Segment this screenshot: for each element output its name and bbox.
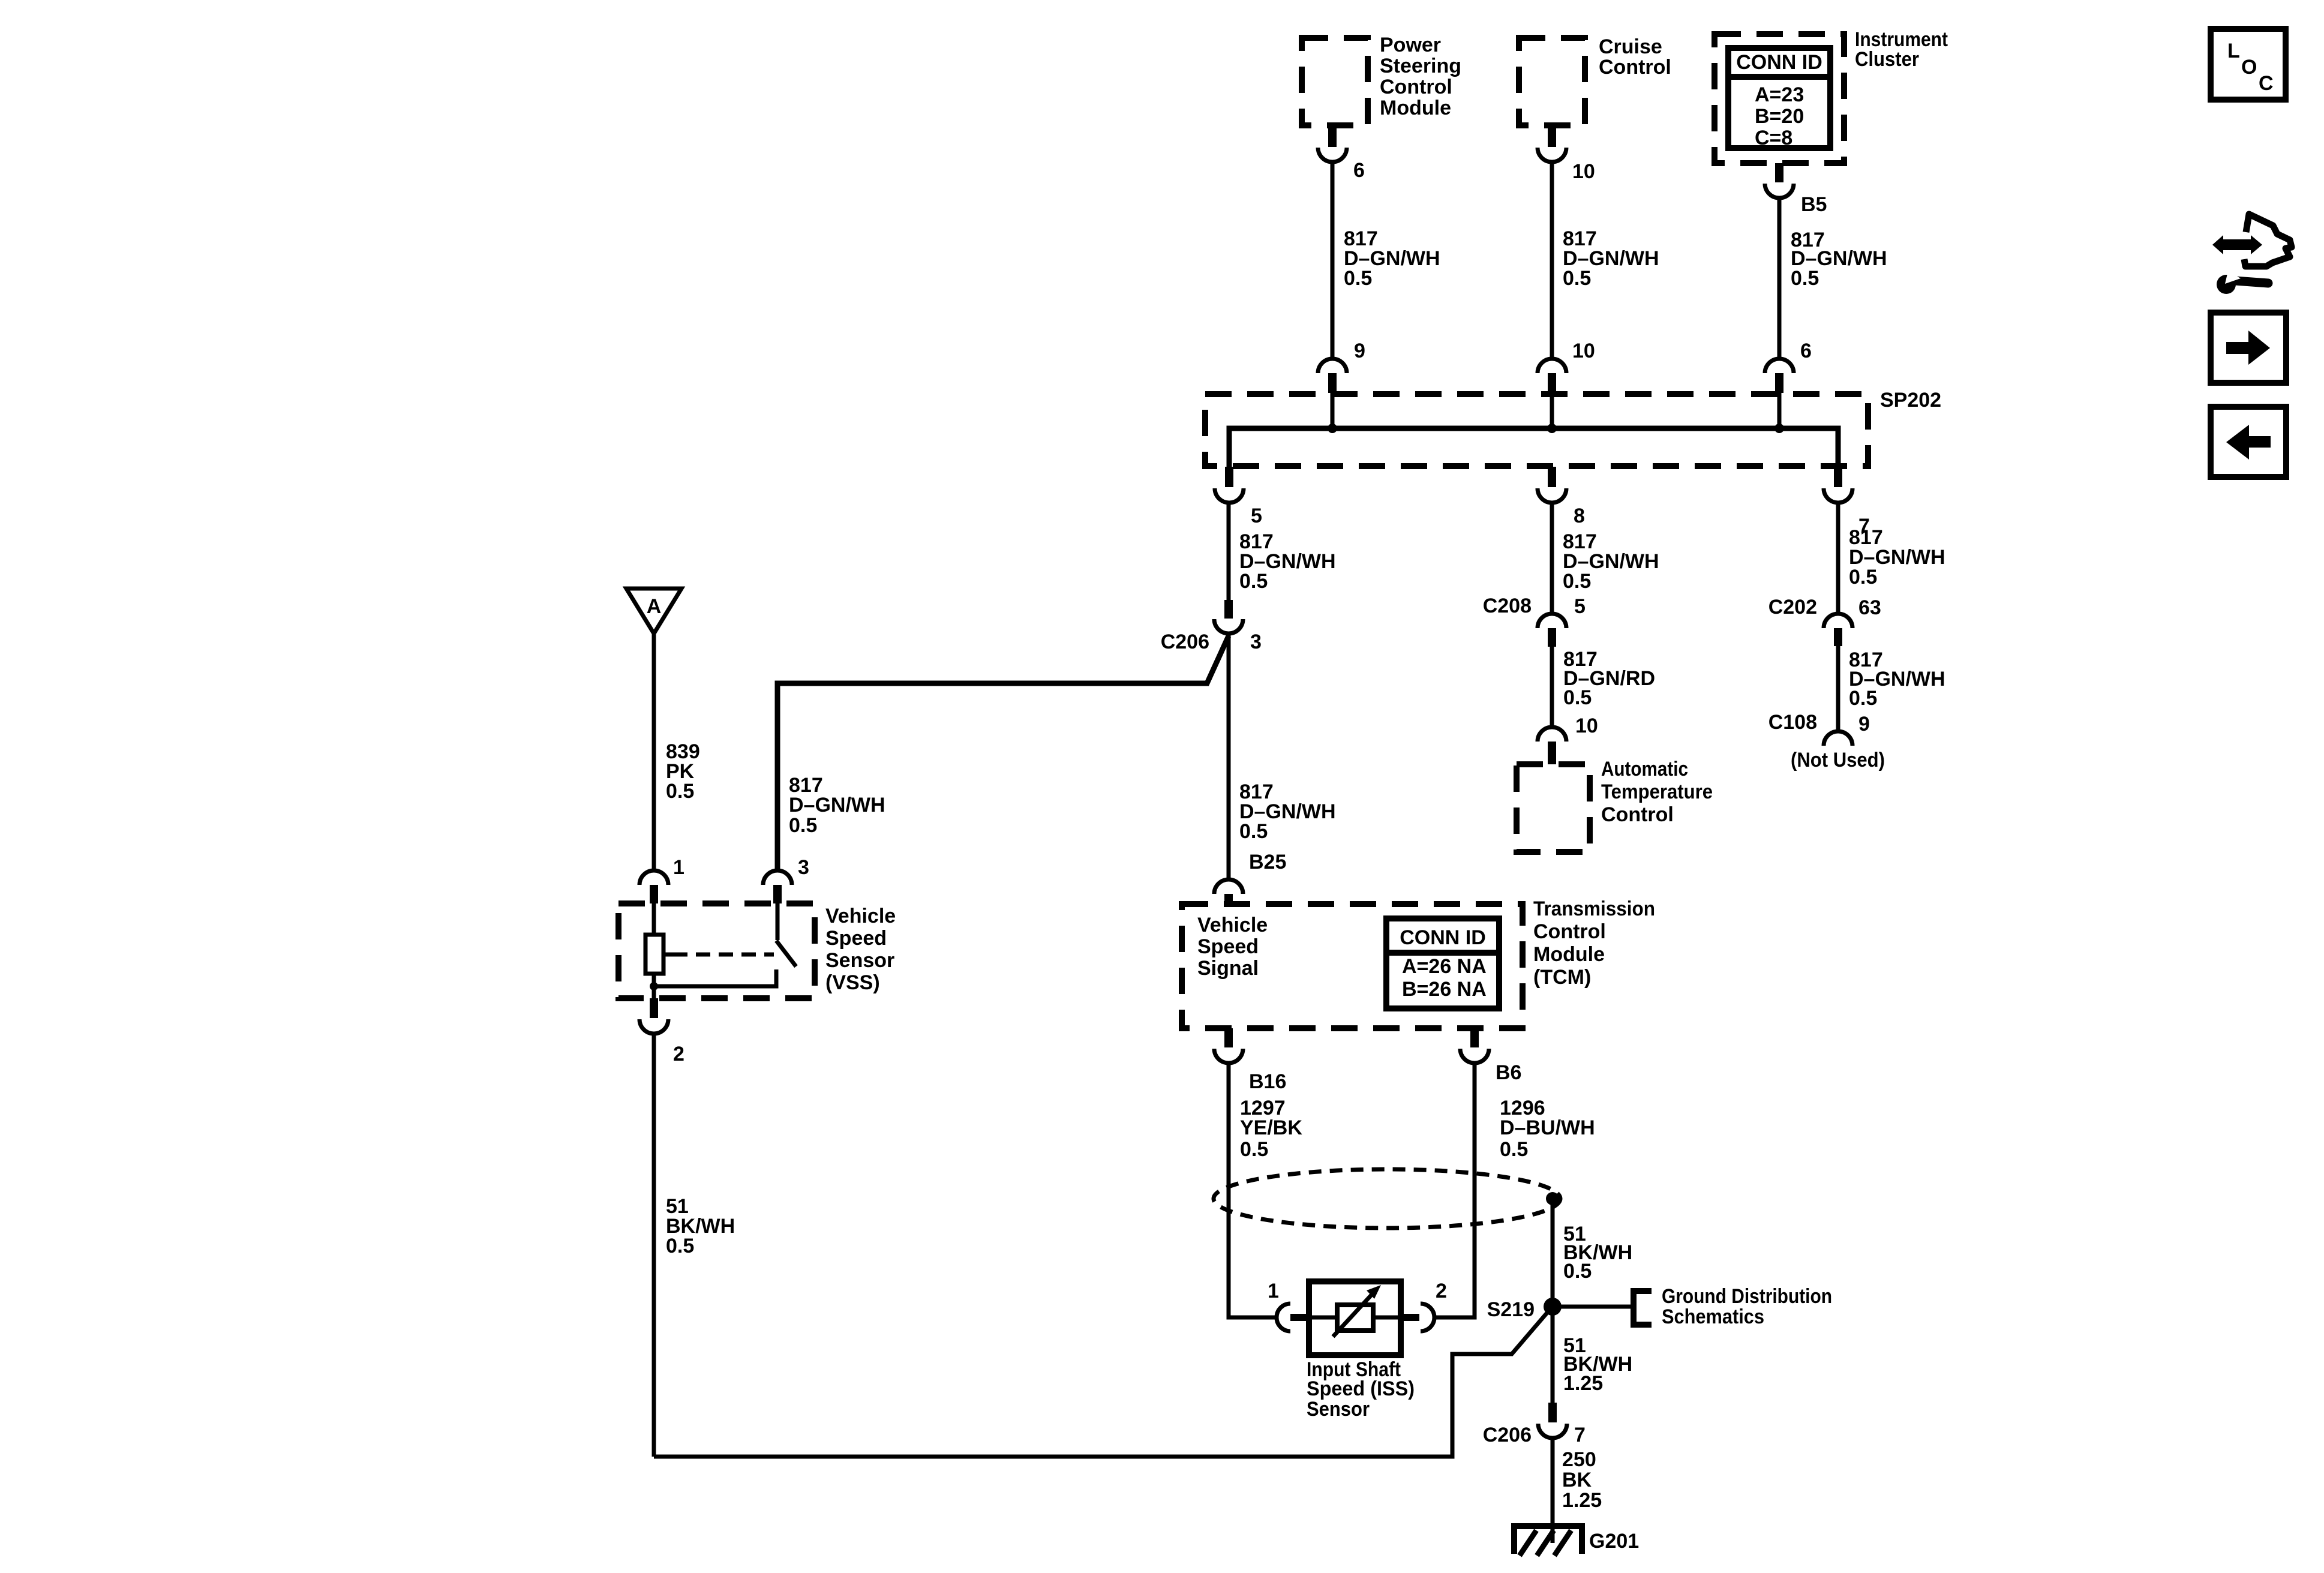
svg-text:A: A xyxy=(647,595,662,618)
svg-text:5: 5 xyxy=(1251,505,1262,527)
svg-text:C108: C108 xyxy=(1768,711,1817,734)
svg-text:0.5: 0.5 xyxy=(1563,686,1592,709)
svg-text:0.5: 0.5 xyxy=(1563,570,1591,593)
icon: forward arrow box xyxy=(2211,313,2286,383)
connector pin B25 at TCM xyxy=(1214,851,1286,905)
svg-text:1: 1 xyxy=(1268,1280,1279,1302)
node junction inside VSS xyxy=(650,969,776,990)
svg-text:Signal: Signal xyxy=(1197,957,1259,980)
connector pin 1 at VSS xyxy=(639,856,684,903)
svg-text:63: 63 xyxy=(1858,596,1881,619)
svg-text:(Not Used): (Not Used) xyxy=(1791,749,1885,772)
svg-text:D–BU/WH: D–BU/WH xyxy=(1500,1116,1595,1139)
svg-text:0.5: 0.5 xyxy=(1791,267,1819,290)
svg-text:(TCM): (TCM) xyxy=(1533,966,1591,989)
svg-text:0.5: 0.5 xyxy=(1563,267,1591,290)
svg-text:3: 3 xyxy=(798,856,809,879)
svg-text:1.25: 1.25 xyxy=(1563,1372,1603,1395)
svg-text:Cluster: Cluster xyxy=(1855,48,1919,71)
svg-text:5: 5 xyxy=(1574,595,1586,618)
module: Automatic Temperature Control xyxy=(1517,758,1713,852)
svg-text:L: L xyxy=(2227,40,2240,62)
in-line connector C206 pin 7 xyxy=(1483,1403,1586,1446)
svg-text:10: 10 xyxy=(1575,715,1598,737)
svg-text:Sensor: Sensor xyxy=(1307,1398,1370,1421)
svg-text:B16: B16 xyxy=(1249,1070,1286,1093)
svg-text:B25: B25 xyxy=(1249,851,1286,873)
connector pin B16 at TCM xyxy=(1214,1028,1286,1093)
icon: back arrow box xyxy=(2211,407,2286,477)
node: case ground junction on ellipse xyxy=(1546,1192,1559,1205)
svg-text:B=20: B=20 xyxy=(1755,105,1804,128)
svg-text:Vehicle: Vehicle xyxy=(1197,914,1268,936)
module: Instrument Cluster xyxy=(1715,28,1948,163)
connector pin 1 at ISS sensor xyxy=(1268,1280,1309,1331)
svg-text:(VSS): (VSS) xyxy=(825,971,880,994)
connector pin 3 at VSS xyxy=(763,856,809,903)
dashed actuation link inside VSS xyxy=(663,953,774,957)
wire 817 D-GN/WH label at VSS pin 3 xyxy=(789,774,885,837)
svg-text:2: 2 xyxy=(1436,1280,1447,1302)
wire 817 D-GN/WH from SP202 pin 7 to C202 xyxy=(1838,503,1945,614)
svg-text:9: 9 xyxy=(1354,340,1365,362)
in-line connector C208 pin 5 xyxy=(1483,595,1586,647)
svg-text:CONN ID: CONN ID xyxy=(1400,926,1486,949)
connector pin B5 at Instrument Cluster xyxy=(1765,163,1827,216)
wire 817 D-GN/WH from Power Steering pin 6 to SP202 pin 9 xyxy=(1332,162,1440,359)
svg-text:10: 10 xyxy=(1572,160,1595,183)
connector pin 2 at VSS xyxy=(639,998,684,1065)
svg-text:0.5: 0.5 xyxy=(789,814,817,837)
svg-text:Module: Module xyxy=(1380,97,1451,119)
svg-text:Module: Module xyxy=(1533,943,1605,966)
ground G201 xyxy=(1514,1526,1639,1556)
legend: LOC box xyxy=(2211,29,2286,100)
svg-text:G201: G201 xyxy=(1589,1530,1639,1553)
node A reference triangle xyxy=(626,589,681,634)
module: Cruise Control xyxy=(1519,35,1671,125)
splice SP202 xyxy=(1205,389,1941,467)
wire 51 BK/WH from VSS pin 2 to S219 xyxy=(654,1034,1551,1457)
module: Power Steering Control Module xyxy=(1302,34,1461,125)
wire 817 D-GN/WH from C202 to C108 xyxy=(1838,646,1945,731)
svg-text:C206: C206 xyxy=(1161,631,1209,653)
svg-text:0.5: 0.5 xyxy=(1500,1138,1528,1161)
wire 817 D-GN/WH from C206 pin 3 to TCM B25 xyxy=(1229,634,1336,879)
wire 51 BK/WH from S219 to C206 pin 7 xyxy=(1563,1334,1632,1395)
svg-text:YE/BK: YE/BK xyxy=(1240,1116,1302,1139)
module: Transmission Control Module (TCM) xyxy=(1182,897,1655,1028)
svg-text:C208: C208 xyxy=(1483,595,1532,617)
icon: diagnostic car with arrow and wrench xyxy=(2212,214,2292,294)
svg-text:C: C xyxy=(2259,72,2274,95)
wire 1296 D-BU/WH from TCM B6 to ISS sensor pin 2 xyxy=(1434,1063,1595,1317)
svg-text:B=26 NA: B=26 NA xyxy=(1402,978,1487,1001)
svg-text:0.5: 0.5 xyxy=(666,1235,694,1257)
svg-text:Control: Control xyxy=(1533,920,1606,943)
svg-text:8: 8 xyxy=(1574,505,1585,527)
in-line connector C108 pin 9 (Not Used) xyxy=(1768,711,1885,772)
svg-text:0.5: 0.5 xyxy=(1344,267,1372,290)
svg-text:10: 10 xyxy=(1572,340,1595,362)
svg-text:Speed: Speed xyxy=(825,927,887,950)
splice S219 xyxy=(1487,1298,1631,1321)
svg-text:Schematics: Schematics xyxy=(1662,1305,1764,1328)
component: Input Shaft Speed (ISS) Sensor xyxy=(1307,1281,1415,1421)
svg-text:O: O xyxy=(2241,56,2257,79)
svg-text:2: 2 xyxy=(673,1043,684,1065)
svg-text:B6: B6 xyxy=(1496,1061,1521,1084)
connector pin 8 below SP202 xyxy=(1538,467,1585,527)
svg-text:Speed: Speed xyxy=(1197,935,1259,958)
svg-text:A=26 NA: A=26 NA xyxy=(1402,955,1487,978)
svg-text:Temperature: Temperature xyxy=(1601,781,1713,803)
wire 817 D-GN/WH from Cruise Control pin 10 to SP202 pin 10 xyxy=(1552,162,1659,359)
svg-text:C202: C202 xyxy=(1768,596,1817,619)
svg-text:250: 250 xyxy=(1562,1448,1596,1471)
resistor inside VSS xyxy=(645,903,663,999)
svg-text:6: 6 xyxy=(1800,340,1812,362)
svg-text:0.5: 0.5 xyxy=(1239,820,1268,843)
svg-text:6: 6 xyxy=(1353,159,1365,182)
transmission case dashed ellipse xyxy=(1214,1169,1560,1228)
svg-text:Power: Power xyxy=(1380,34,1441,56)
svg-text:Steering: Steering xyxy=(1380,55,1461,77)
svg-text:0.5: 0.5 xyxy=(1849,566,1877,589)
switch inside VSS xyxy=(776,903,796,966)
wire 817 D-GN/WH from Instrument Cluster B5 to SP202 pin 6 xyxy=(1779,198,1887,359)
connector pin B6 at TCM xyxy=(1460,1028,1521,1084)
connector pin 10 at SP202 xyxy=(1538,340,1595,428)
svg-text:Speed (ISS): Speed (ISS) xyxy=(1307,1377,1415,1400)
wire 817 D-GN/WH from SP202 pin 8 to C208 xyxy=(1552,503,1659,614)
svg-text:C=8: C=8 xyxy=(1755,127,1792,149)
svg-text:0.5: 0.5 xyxy=(1240,1138,1268,1161)
wire 839 PK from node A to VSS pin 1 xyxy=(654,634,700,870)
in-line connector C206 pin 3 xyxy=(1161,600,1262,653)
svg-text:CONN ID: CONN ID xyxy=(1736,51,1822,74)
connector pin 10 at Automatic Temperature Control xyxy=(1538,715,1598,764)
connector pin 6 at SP202 xyxy=(1765,340,1812,428)
wire branch from C206 pin 3 to VSS pin 3 xyxy=(777,636,1229,870)
connector pin 7 below SP202 xyxy=(1824,467,1870,538)
connector pin 5 below SP202 xyxy=(1215,467,1262,527)
svg-text:0.5: 0.5 xyxy=(1563,1260,1592,1283)
svg-text:S219: S219 xyxy=(1487,1298,1535,1321)
wire 817 D-GN/RD from C208 to Automatic Temperature Control pin 10 xyxy=(1552,647,1655,728)
in-line connector C202 pin 63 xyxy=(1768,596,1881,646)
wire 1297 YE/BK from TCM B16 to ISS sensor pin 1 xyxy=(1229,1063,1302,1317)
svg-text:3: 3 xyxy=(1250,631,1262,653)
svg-text:0.5: 0.5 xyxy=(1239,570,1268,593)
svg-text:7: 7 xyxy=(1574,1424,1586,1446)
svg-text:C206: C206 xyxy=(1483,1424,1532,1446)
wire 51 BK/WH from case ground to S219 xyxy=(1553,1205,1632,1403)
svg-text:Vehicle: Vehicle xyxy=(825,905,896,927)
svg-text:Sensor: Sensor xyxy=(825,949,894,972)
svg-text:Cruise: Cruise xyxy=(1599,35,1662,58)
svg-text:1: 1 xyxy=(673,856,684,879)
svg-text:A=23: A=23 xyxy=(1755,83,1804,106)
svg-text:BK: BK xyxy=(1562,1469,1592,1491)
svg-text:Control: Control xyxy=(1599,56,1671,79)
wire 250 BK from C206 pin 7 to G201 xyxy=(1553,1438,1602,1543)
wire 817 D-GN/WH from SP202 pin 5 to C206 xyxy=(1229,503,1336,600)
connector pin 6 at Power Steering Control Module xyxy=(1318,125,1365,182)
svg-text:D–GN/WH: D–GN/WH xyxy=(789,794,885,816)
svg-text:B5: B5 xyxy=(1801,193,1827,216)
off-page reference: Ground Distribution Schematics xyxy=(1634,1285,1832,1328)
svg-text:0.5: 0.5 xyxy=(666,780,694,803)
connector pin 10 at Cruise Control xyxy=(1538,125,1595,183)
connector pin 2 at ISS sensor xyxy=(1401,1280,1447,1331)
svg-text:SP202: SP202 xyxy=(1880,389,1941,412)
connector pin 9 at SP202 xyxy=(1318,340,1365,428)
svg-text:Ground Distribution: Ground Distribution xyxy=(1662,1285,1832,1308)
svg-text:Automatic: Automatic xyxy=(1601,758,1688,781)
svg-text:9: 9 xyxy=(1858,713,1870,736)
module: Vehicle Speed Sensor (VSS) xyxy=(618,903,896,998)
svg-text:1.25: 1.25 xyxy=(1562,1489,1602,1512)
svg-text:Control: Control xyxy=(1380,76,1452,98)
svg-text:0.5: 0.5 xyxy=(1849,687,1877,710)
svg-text:Transmission: Transmission xyxy=(1533,897,1655,920)
svg-text:Control: Control xyxy=(1601,803,1674,826)
